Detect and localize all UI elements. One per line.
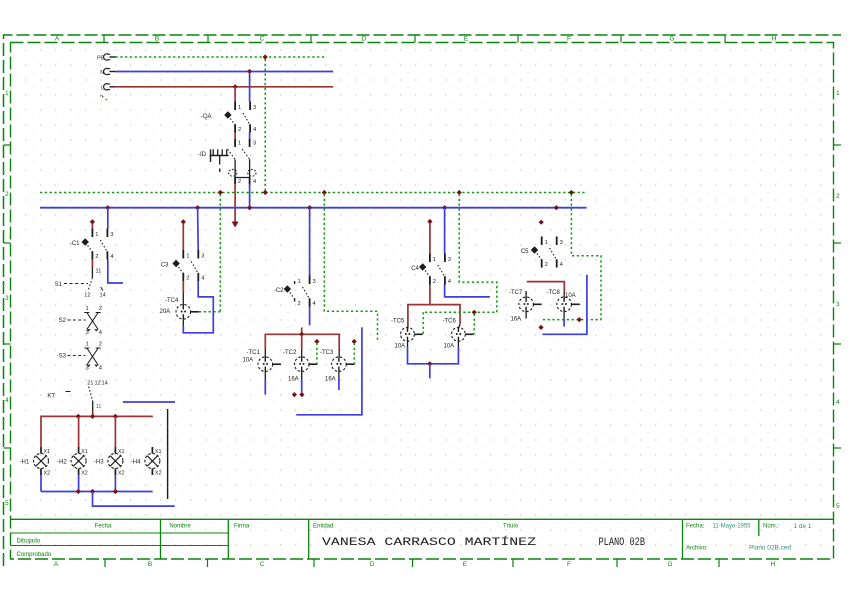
wire N route right <box>542 275 587 335</box>
symbol 3N mark <box>100 95 107 101</box>
svg-text:-TC2: -TC2 <box>283 350 297 356</box>
switch S3 <box>57 342 103 372</box>
node N bus x556 <box>554 205 559 210</box>
svg-text:1: 1 <box>298 279 301 285</box>
lamp -H4 <box>131 447 162 477</box>
wire L tap C1 <box>91 224 93 229</box>
svg-text:2: 2 <box>836 193 840 200</box>
svg-text:Fecha:: Fecha: <box>686 524 705 530</box>
svg-text:5: 5 <box>836 503 840 510</box>
contact KT <box>47 381 107 412</box>
wire blue stub right of lamps <box>123 401 175 403</box>
wire N drop C4 <box>444 208 446 254</box>
svg-text:12: 12 <box>95 381 101 387</box>
svg-text:16A: 16A <box>325 377 336 383</box>
wire red elbow TC8 <box>527 282 565 291</box>
svg-text:B: B <box>155 36 159 43</box>
svg-text:KT: KT <box>47 394 55 400</box>
title right Num value <box>794 524 813 530</box>
node TC56 N bus <box>427 361 432 366</box>
wire L drop TC2 <box>301 334 303 349</box>
svg-text:1: 1 <box>85 342 88 348</box>
wire TC6 pin bottom <box>457 341 459 346</box>
svg-text:E: E <box>464 36 468 43</box>
svg-text:1: 1 <box>238 141 241 147</box>
svg-text:A: A <box>54 561 59 568</box>
svg-text:X1: X1 <box>118 449 125 455</box>
wire N drop C2 <box>309 208 311 276</box>
wire N return TC group <box>296 327 362 414</box>
svg-text:1: 1 <box>836 90 840 97</box>
wire C3 pin4 elbow <box>183 281 213 333</box>
wire KT to lamp bus <box>92 411 94 416</box>
title header Entidad <box>313 524 333 530</box>
svg-text:-TC4: -TC4 <box>165 298 179 304</box>
svg-text:3: 3 <box>85 330 88 336</box>
svg-text:X2: X2 <box>118 471 125 477</box>
node below TC2 a <box>292 392 297 397</box>
wire TC5 pin bottom <box>407 341 409 346</box>
wire PE drop TC2 <box>314 339 319 364</box>
node N bus x197 <box>195 205 200 210</box>
switch S2 <box>59 306 103 336</box>
svg-text:X2: X2 <box>155 471 162 477</box>
node PE bus x459 <box>457 190 462 195</box>
socket -TC5 <box>391 319 423 350</box>
node PE bus x220 <box>218 190 223 195</box>
svg-text:3: 3 <box>5 295 9 302</box>
svg-text:2: 2 <box>99 306 102 312</box>
wire N top <box>116 71 334 73</box>
titulo value PLANO 02B <box>599 537 646 549</box>
wire TC7 pin top stub <box>525 291 527 297</box>
switch S1 <box>55 278 106 299</box>
wire TC3 pin bottom <box>338 372 340 379</box>
wire N stub below TC56 <box>429 364 431 379</box>
wire PE drop to bus <box>264 59 266 191</box>
wire TC8 N stub <box>563 319 565 327</box>
wire PE drop TC6 <box>473 314 475 335</box>
wire N rise H3 <box>114 475 116 492</box>
svg-text:21: 21 <box>87 381 93 387</box>
svg-text:3: 3 <box>85 366 88 372</box>
node PE bus x324 <box>322 190 327 195</box>
svg-text:1: 1 <box>238 105 241 111</box>
wire lamp N feed <box>93 492 175 507</box>
node PE C4 <box>472 310 477 315</box>
svg-text:2: 2 <box>545 262 548 268</box>
node L junction <box>233 84 238 89</box>
svg-text:3: 3 <box>201 253 204 259</box>
svg-text:Núm.:: Núm.: <box>763 524 779 530</box>
wire lamp L bus <box>41 416 153 447</box>
svg-text:-TC3: -TC3 <box>320 350 334 356</box>
wire PE route C4 <box>423 194 497 312</box>
socket -TC4 <box>160 298 199 319</box>
title header Nombre <box>169 524 191 530</box>
RCD -ID <box>198 139 256 185</box>
node N bus x107 <box>105 205 110 210</box>
wire TC1 pin bottom <box>264 372 266 379</box>
svg-text:2: 2 <box>298 301 301 307</box>
wire PE top distribution <box>116 56 327 58</box>
svg-text:Fecha: Fecha <box>95 524 112 530</box>
wire L tap C4 <box>429 223 431 254</box>
svg-text:C4: C4 <box>411 266 419 272</box>
wire PE bus <box>40 192 587 194</box>
wire TC56 bus red <box>408 305 460 325</box>
svg-text:-QA: -QA <box>201 114 212 120</box>
svg-text:2: 2 <box>5 191 9 198</box>
wire TC56 bus blue <box>408 347 459 364</box>
breaker -C1 <box>70 229 114 261</box>
title block grid <box>11 519 834 559</box>
svg-text:Archivo:: Archivo: <box>686 546 708 552</box>
svg-text:1: 1 <box>95 232 98 238</box>
wire N rise H2 <box>78 475 80 492</box>
title right Archivo value <box>749 546 791 552</box>
wire PE route C5 <box>542 194 601 320</box>
svg-text:-TC5: -TC5 <box>391 319 405 325</box>
node lamp L bus x78 <box>76 414 81 419</box>
svg-text:X2: X2 <box>81 471 88 477</box>
wire C4 pin4 elbow <box>445 285 490 297</box>
svg-text:Firma: Firma <box>234 524 250 530</box>
svg-text:Comprobado: Comprobado <box>17 552 52 558</box>
svg-text:Entidad: Entidad <box>313 524 333 530</box>
svg-text:2: 2 <box>433 279 436 285</box>
wire C1 pin11 <box>92 267 101 278</box>
svg-text:S1: S1 <box>55 282 63 288</box>
title row Comprobado <box>17 552 52 558</box>
svg-text:5: 5 <box>5 500 9 507</box>
svg-text:F: F <box>567 561 571 568</box>
wire TC2 N stub <box>301 379 303 394</box>
wire PE route C2 <box>324 194 377 342</box>
title header Fecha <box>95 524 112 530</box>
svg-text:-TC6: -TC6 <box>443 319 457 325</box>
title right Archivo label <box>686 546 708 552</box>
wire C1 pin4 elbow <box>108 260 123 284</box>
node lamp N bus x115 <box>113 489 118 494</box>
node L tap C3 <box>181 219 186 224</box>
title header Firma <box>234 524 250 530</box>
svg-text:11: 11 <box>96 404 102 410</box>
socket -TC8 <box>547 290 580 312</box>
node L tap C1 <box>90 219 95 224</box>
breaker C3 <box>161 250 205 282</box>
node below TC2 b <box>299 392 304 397</box>
svg-text:-C1: -C1 <box>70 241 80 247</box>
svg-text:3: 3 <box>253 105 256 111</box>
svg-text:Título: Título <box>503 524 519 530</box>
terminal PE <box>97 54 115 62</box>
wire TC1 N stub <box>264 379 266 395</box>
socket -TC2 <box>283 350 317 383</box>
node TC bus <box>299 332 304 337</box>
wire black riser right of lamps <box>167 409 169 499</box>
svg-text:14: 14 <box>102 381 108 387</box>
wire C4 pin2 down <box>429 285 431 305</box>
wire N to bus <box>249 184 251 208</box>
svg-text:X1: X1 <box>81 449 88 455</box>
svg-text:H: H <box>772 36 777 43</box>
svg-text:E: E <box>463 561 467 568</box>
wire L drop H3 <box>114 416 116 447</box>
svg-text:C: C <box>260 36 265 43</box>
svg-text:2: 2 <box>95 254 98 260</box>
svg-text:-TC8: -TC8 <box>547 290 561 296</box>
node PE C5 <box>577 317 582 322</box>
wire C1 pin2 down <box>91 260 93 268</box>
wire PE drop TC3 <box>352 339 357 364</box>
svg-text:4: 4 <box>5 397 9 404</box>
svg-text:1: 1 <box>545 240 548 246</box>
title right Fecha label <box>686 524 705 530</box>
svg-text:2: 2 <box>238 127 241 133</box>
svg-text:10A: 10A <box>395 344 406 350</box>
wire TC3 N stub <box>338 379 340 391</box>
node PE bus x265 <box>263 190 268 195</box>
svg-text:3: 3 <box>448 257 451 263</box>
svg-text:12: 12 <box>84 293 90 299</box>
svg-text:1 de 1: 1 de 1 <box>794 524 813 530</box>
svg-text:11-Mayo-1955: 11-Mayo-1955 <box>713 524 752 530</box>
wire L feed arrow <box>232 184 239 228</box>
wire PE drop TC5 <box>422 312 424 334</box>
socket -TC7 <box>509 290 542 323</box>
svg-text:2: 2 <box>186 276 189 282</box>
svg-text:1: 1 <box>85 306 88 312</box>
svg-text:D: D <box>362 36 367 43</box>
wire N drop C3 <box>197 208 200 250</box>
wire TC2 pin bottom <box>301 372 303 379</box>
terminal L <box>101 84 115 92</box>
svg-text:3: 3 <box>836 301 840 308</box>
node lamp L bus x92 <box>90 414 95 419</box>
svg-text:A: A <box>55 36 60 43</box>
wire TC4 pin bottom <box>182 319 184 327</box>
wire L drop H2 <box>78 416 80 447</box>
svg-text:-TC7: -TC7 <box>509 290 523 296</box>
svg-text:H: H <box>771 561 776 568</box>
breaker -QA <box>201 102 257 134</box>
svg-text:1: 1 <box>5 90 9 97</box>
svg-text:-ID: -ID <box>198 152 207 158</box>
wire TC4 pin top <box>182 293 184 305</box>
svg-text:14: 14 <box>100 293 106 299</box>
wire QA to ID right <box>249 133 251 140</box>
breaker C5 <box>521 237 564 269</box>
title header Titulo <box>503 524 519 530</box>
svg-text:D: D <box>370 561 375 568</box>
wire C3 pin2 down <box>182 281 184 293</box>
wire TC8 pin bottom <box>563 312 565 319</box>
svg-text:10A: 10A <box>243 358 254 364</box>
title right Fecha value <box>713 524 752 530</box>
svg-text:G: G <box>668 561 673 568</box>
title row Dibujado <box>17 539 41 545</box>
node PE bus x571 <box>569 190 574 195</box>
wire TC6 pin top <box>458 325 460 329</box>
node lamp N bus x92 <box>90 489 95 494</box>
terminal N <box>100 68 115 76</box>
svg-text:-S3: -S3 <box>57 354 67 360</box>
wire TC5 pin top <box>407 325 409 329</box>
svg-text:2: 2 <box>238 179 241 185</box>
wire L top <box>116 86 334 88</box>
socket -TC3 <box>320 350 355 383</box>
wire TC8 pin top <box>563 291 565 298</box>
svg-text:Nombre: Nombre <box>169 524 191 530</box>
socket -TC1 <box>243 350 281 372</box>
node lamp N bus x78 <box>76 489 81 494</box>
wire TC7 pin bottom stub <box>525 312 527 319</box>
svg-text:10A: 10A <box>444 344 455 350</box>
svg-text:11: 11 <box>96 269 102 275</box>
wire QA to ID left <box>234 133 236 140</box>
node N junction <box>247 69 252 74</box>
lamp -H1 <box>20 447 51 477</box>
svg-text:-H1: -H1 <box>20 460 30 466</box>
svg-text:3: 3 <box>253 141 256 147</box>
svg-text:PLANO 02B: PLANO 02B <box>599 537 646 549</box>
wire TC2 pin top <box>301 349 303 357</box>
socket -TC6 <box>443 319 474 350</box>
svg-text:-H3: -H3 <box>94 460 104 466</box>
svg-text:3: 3 <box>560 240 563 246</box>
svg-text:C3: C3 <box>161 263 169 269</box>
svg-text:VANESA CARRASCO MARTÍNEZ: VANESA CARRASCO MARTÍNEZ <box>322 535 537 549</box>
wire C2 red stub <box>301 328 303 335</box>
breaker -C2 <box>274 276 317 308</box>
svg-text:2: 2 <box>99 342 102 348</box>
node stray below TC7 <box>538 325 543 330</box>
wire C2 pin4 down <box>309 307 311 326</box>
svg-text:B: B <box>148 561 152 568</box>
svg-text:16A: 16A <box>511 317 522 323</box>
svg-text:3: 3 <box>313 279 316 285</box>
svg-text:F: F <box>567 36 571 43</box>
svg-text:C5: C5 <box>521 249 529 255</box>
svg-text:10A: 10A <box>565 293 576 299</box>
svg-text:-H2: -H2 <box>57 460 67 466</box>
node L tap C4 <box>427 219 432 224</box>
svg-text:1: 1 <box>186 253 189 259</box>
wire TC3 pin top <box>338 349 340 357</box>
node PE top junction <box>263 54 268 59</box>
wire N drop to QA <box>249 72 251 102</box>
node N bus x444 <box>442 205 447 210</box>
wire L drop to QA <box>234 87 236 102</box>
node N bus x249 <box>247 205 252 210</box>
svg-text:20A: 20A <box>160 309 171 315</box>
node lamp L bus x115 <box>113 414 118 419</box>
wire TC1 pin top <box>264 349 266 357</box>
wire PE drop TC4 <box>219 194 221 312</box>
lamp -H3 <box>94 447 125 477</box>
node N bus x309 <box>307 205 312 210</box>
entidad value VANESA CARRASCO MARTINEZ <box>322 535 537 549</box>
svg-text:3: 3 <box>110 232 113 238</box>
svg-text:-C2: -C2 <box>274 288 284 294</box>
wire N rise H1 <box>40 475 42 492</box>
svg-text:Plano 02B.ced: Plano 02B.ced <box>749 546 791 552</box>
svg-text:C: C <box>260 561 265 568</box>
title right Num label <box>763 524 779 530</box>
wire N bus <box>40 207 587 209</box>
svg-text:-TC1: -TC1 <box>247 350 261 356</box>
svg-text:Dibujado: Dibujado <box>17 539 41 545</box>
svg-text:1: 1 <box>433 257 436 263</box>
svg-text:16A: 16A <box>288 377 299 383</box>
svg-text:4: 4 <box>253 179 256 185</box>
wire lamp N bus <box>41 491 153 493</box>
svg-text:X2: X2 <box>44 471 51 477</box>
svg-text:4: 4 <box>836 399 840 406</box>
svg-text:S2: S2 <box>59 318 67 324</box>
lamp -H2 <box>57 447 88 477</box>
node L tap C5 <box>539 220 544 225</box>
breaker C4 <box>411 254 452 286</box>
svg-text:-H4: -H4 <box>131 460 141 466</box>
svg-text:G: G <box>670 36 675 43</box>
wire L tap C3 <box>182 224 184 251</box>
wire N drop C1 <box>107 208 109 229</box>
wire TC bus red <box>265 334 339 349</box>
wire PE link TC4 <box>199 311 220 313</box>
svg-text:X1: X1 <box>155 449 162 455</box>
svg-text:X1: X1 <box>44 449 51 455</box>
